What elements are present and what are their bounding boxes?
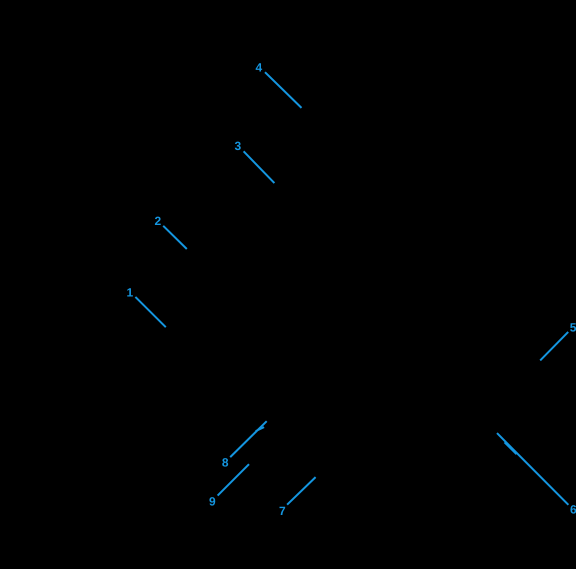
leader line 2 [163,226,187,249]
svg-text:5: 5 [570,321,576,335]
svg-text:4: 4 [256,61,263,75]
svg-text:7: 7 [279,504,286,518]
svg-text:6: 6 [570,503,576,517]
leader line 8 barb [256,427,265,431]
leader line 4 [265,72,302,108]
svg-text:1: 1 [127,286,134,300]
svg-text:2: 2 [155,214,162,228]
leader line 8 [230,421,267,457]
svg-text:9: 9 [209,494,216,508]
leader line 5 [540,332,568,361]
leader line 7 [287,477,316,505]
leader line 3 [244,151,275,183]
leader line 6 parallel dash [505,442,517,454]
svg-text:3: 3 [235,139,242,153]
leader line 9 [218,464,249,495]
leader line 6 [497,433,568,505]
svg-text:8: 8 [222,456,229,470]
leader line 1 [135,297,165,327]
